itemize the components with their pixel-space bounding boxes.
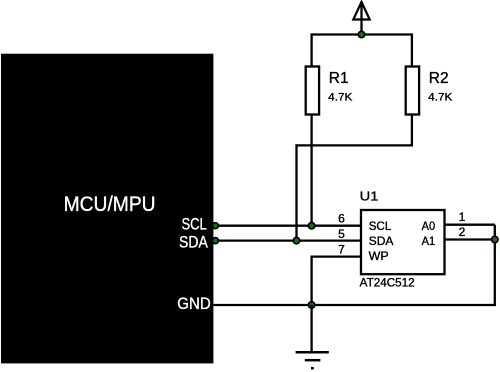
wire R2 drop to SDA	[295, 144, 297, 240]
svg-text:7: 7	[338, 242, 345, 256]
wire R1 bottom lead	[310, 115, 312, 226]
svg-text:SCL: SCL	[369, 219, 392, 233]
svg-text:A0: A0	[422, 219, 436, 233]
svg-text:6: 6	[338, 212, 345, 226]
pin dot SDA (MCU)	[212, 238, 218, 244]
junction pin2-vertical	[492, 236, 498, 242]
resistor R2	[406, 67, 419, 115]
svg-text:5: 5	[338, 227, 345, 241]
svg-text:SCL: SCL	[182, 215, 207, 233]
wire pin 2 (A1)	[445, 238, 495, 240]
svg-text:GND: GND	[177, 294, 210, 313]
svg-text:4.7K: 4.7K	[328, 91, 353, 103]
svg-text:A1: A1	[422, 234, 436, 248]
junction R1-SCL	[308, 223, 314, 229]
wire SCL net	[213, 225, 361, 227]
MCU/MPU block	[1, 54, 213, 364]
pin dot SCL (MCU)	[212, 223, 218, 229]
svg-text:1: 1	[459, 210, 466, 224]
wire pin 1 (A0)	[445, 224, 495, 226]
power symbol VCC arrow	[353, 2, 369, 35]
junction VCC node	[358, 31, 364, 37]
svg-text:SDA: SDA	[179, 233, 208, 251]
svg-text:AT24C512: AT24C512	[360, 278, 415, 290]
svg-text:SDA: SDA	[369, 234, 394, 248]
IC U1 body	[361, 210, 445, 274]
svg-text:MCU/MPU: MCU/MPU	[64, 193, 156, 216]
wire R2 top lead	[411, 33, 413, 66]
wire R2 bottom lead	[411, 115, 413, 146]
svg-text:2: 2	[459, 225, 466, 239]
svg-text:R1: R1	[329, 70, 349, 87]
svg-text:4.7K: 4.7K	[428, 91, 453, 103]
wire WP horizontal	[311, 255, 362, 257]
svg-text:WP: WP	[369, 249, 389, 263]
wire GND net	[213, 304, 494, 306]
wire VCC rail	[312, 33, 412, 35]
resistor R1	[306, 67, 319, 115]
wire A0/A1 to GND vertical	[494, 225, 496, 306]
wire WP vertical	[310, 257, 312, 305]
ground symbol	[296, 305, 329, 368]
junction WP-GND	[308, 302, 314, 308]
junction R2-SDA	[293, 237, 299, 243]
wire SDA net	[213, 239, 361, 241]
wire R1 top lead	[310, 33, 312, 66]
wire R2 jog horizontal	[297, 144, 414, 146]
svg-text:R2: R2	[429, 70, 449, 87]
svg-text:U1: U1	[360, 188, 379, 203]
